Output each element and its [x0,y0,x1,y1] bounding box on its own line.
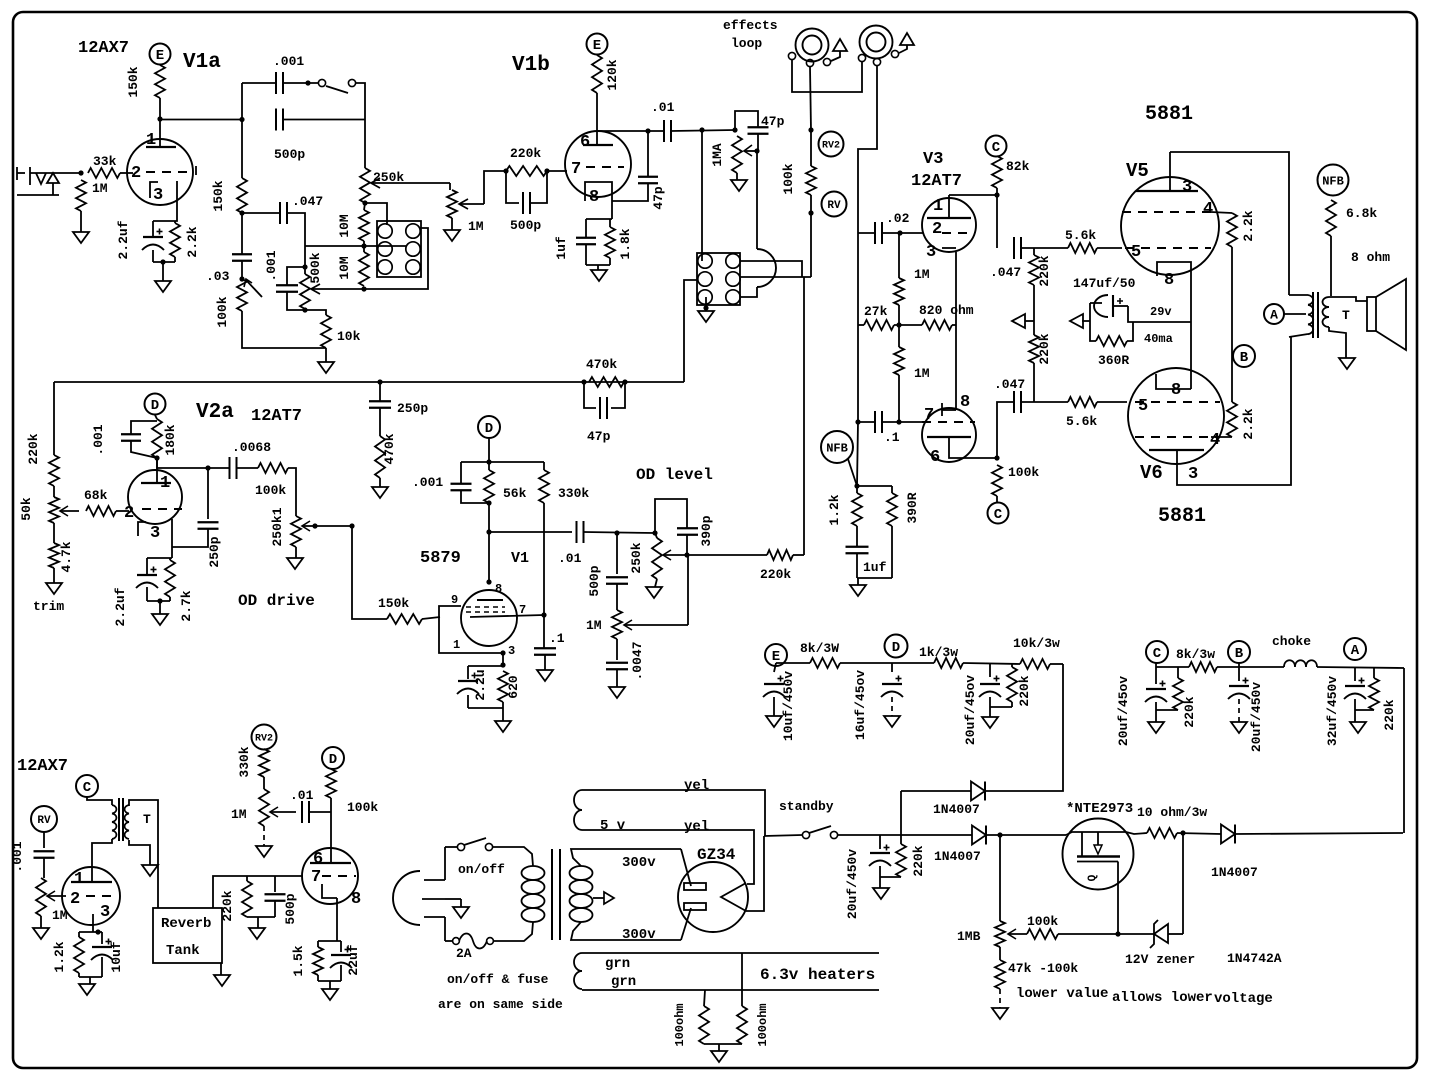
label 1N4007 main [934,849,981,864]
wire zener to gate [1118,933,1154,935]
svg-text:are on same side: are on same side [438,997,563,1012]
svg-text:NFB: NFB [1322,174,1344,188]
wire 1M lower [898,325,900,422]
pin 1 5879 [453,638,460,652]
wire 27k left [858,324,864,326]
resistor 100k reg [1027,929,1058,939]
label 100k reg [1027,914,1058,929]
svg-text:on/off: on/off [458,862,505,877]
capacitor .01 5879 [577,521,584,543]
svg-text:voltage: voltage [1214,991,1273,1007]
plate lead V6 [1177,337,1291,485]
label .01 coupling [651,100,675,115]
svg-text:100k: 100k [1027,914,1058,929]
wire send tip down [810,67,811,130]
cathode net wires V1a [153,221,175,281]
svg-text:100ohm: 100ohm [673,1003,687,1046]
wire 6.8k down [1330,236,1332,296]
label 500k [308,252,323,283]
pin 7 V4b [311,868,321,887]
pot top lead [655,533,657,538]
svg-text:500p: 500p [587,565,602,596]
potentiometer 1M reverb [36,878,46,916]
label 1N4742A [1227,951,1282,966]
node 100k pot top [239,276,244,281]
node 27k junction [896,322,901,327]
ground 250k1 [287,558,303,569]
resistor 82k [992,156,1002,188]
node chain [808,210,813,215]
capacitor 2.2u 5879 [457,673,479,695]
wire .01 out [584,532,655,533]
ground OD level [646,587,662,598]
label 4.7k [59,541,74,572]
Q internals [1066,832,1126,862]
svg-text:8: 8 [351,890,361,909]
tube V1a [127,139,193,205]
capacitor .001 tone [276,285,298,292]
svg-text:360R: 360R [1098,353,1129,368]
label .1 NFB [884,430,900,445]
pin 6 V4b [313,850,323,869]
text grn top [605,956,630,972]
svg-text:100k: 100k [255,483,286,498]
svg-text:.047: .047 [990,265,1021,280]
text are on same side [438,997,563,1012]
svg-text:V2a: V2a [196,401,234,424]
wire socket row3 [740,287,757,297]
svg-text:3: 3 [1182,178,1192,197]
resistor 1M lower V3 [894,347,904,375]
capacitor .001 V2a [121,434,141,441]
label 2.2uf V2a [113,587,128,626]
svg-text:12AT7: 12AT7 [251,407,302,426]
wire rail E [776,662,810,664]
pin 8 V4b [351,890,361,909]
wire 50k to 4.7k [53,523,55,543]
svg-text:150k: 150k [378,596,409,611]
grid dashes V1a [146,171,192,173]
pin3 bracket V2a [138,522,146,536]
label 1M RV2 [231,807,247,822]
node diode out [997,832,1002,837]
label 10uf [109,941,124,972]
node 1MA top [732,127,737,132]
svg-text:20uf/450v: 20uf/450v [1249,682,1264,752]
label 100k tone [215,296,230,327]
node 220k left [503,168,508,173]
svg-text:.02: .02 [886,211,910,226]
wire 360R right [1127,322,1133,341]
svg-text:150k: 150k [211,180,226,211]
node cathode V2a [157,598,162,603]
node 470k ser left [581,379,586,384]
wire grid to 1M [898,233,900,278]
svg-text:1MA: 1MA [710,143,725,167]
label 250p V2a [207,536,222,567]
label 390R [905,492,920,523]
OT core [1313,292,1318,338]
wire 330k down [543,503,545,615]
wire .001 right [283,82,318,84]
pin 8 bracket V5 [1157,262,1191,389]
svg-text:220k: 220k [26,433,41,464]
svg-text:68k: 68k [84,488,108,503]
label 1.8k [618,228,633,259]
jack return lug1 [858,54,865,61]
cathode net 5879 [468,666,503,721]
svg-text:100ohm: 100ohm [756,1003,770,1046]
label 100ohm 1 [673,1003,687,1046]
label 330k [558,486,589,501]
resistor 390R NFB [887,493,897,526]
resistor 220k lower [1029,335,1039,363]
ground .1 5879 [537,670,553,681]
plate bar V4a [71,881,112,883]
wire 220k A bottom [1355,709,1374,711]
resistor 360R [1096,336,1127,346]
node NFB source [1318,165,1349,196]
tube V4b reverb [302,848,358,904]
svg-text:.01: .01 [290,788,314,803]
wire V5 plate to OT [1170,152,1289,295]
svg-text:allows lower: allows lower [1112,990,1213,1006]
capacitor 147uf bias [1094,295,1123,317]
svg-text:100k: 100k [215,296,230,327]
svg-text:220k: 220k [220,890,235,921]
wire .047 lower right [1021,401,1068,403]
arrow bias upper [1012,285,1034,335]
grid dashes V1b [586,166,624,168]
resistor 220k V1b grid [506,166,547,176]
ground RT [142,865,158,876]
node pin8 5879 [486,579,491,584]
wire cathode tie V3 [955,252,957,410]
node B rail [1228,641,1250,663]
node wiper level [684,552,689,557]
node C supply top [986,136,1007,157]
svg-text:.1: .1 [884,430,900,445]
wire 4.7k gnd [53,568,55,583]
wire 150k to 5879 [422,617,440,619]
label .001 5879 [412,475,443,490]
svg-text:22uf: 22uf [346,944,361,975]
pin 6 V1b [580,133,590,152]
wire pot bottom [655,579,657,587]
label 1k/3w [919,645,958,660]
svg-text:220k: 220k [1037,255,1052,286]
text V3 [923,150,943,169]
label 470k bus [382,433,397,464]
svg-text:B: B [1235,646,1244,662]
label 40ma [1144,332,1173,346]
ground cathode V1b [591,270,607,281]
resistor 2.2k V6 [1227,402,1237,437]
tube 5879 [461,590,517,646]
resistor 220k rail A [1369,668,1379,710]
node C rail [1146,641,1168,663]
pin 3 V4a [100,903,110,922]
label .001 reverb [10,841,25,872]
pin 5 V5 [1131,243,1141,262]
label .01 5879 [558,551,582,566]
pin 8 5879 [495,582,502,596]
text trim [33,599,64,614]
wire .0068 right [237,467,258,469]
svg-text:C: C [994,507,1003,523]
svg-text:1M: 1M [468,219,484,234]
wire NFB link [848,459,857,486]
svg-text:Tank: Tank [166,943,200,959]
label .03 [206,269,230,284]
label 220k rail C [1182,696,1197,727]
capacitor .047 tone [280,202,287,224]
text standby [779,799,834,814]
wire 300v bottom [571,922,681,940]
svg-text:220k: 220k [1182,696,1197,727]
label .0068 [232,440,271,455]
capacitor 390p bracket [655,499,687,533]
label 1M reverb [52,908,68,923]
wire grid V3a [900,232,924,234]
svg-text:29v: 29v [1150,305,1172,319]
svg-text:1M: 1M [586,618,602,633]
wiper 1M 5879 [624,555,688,630]
tube V3b [922,408,976,462]
wire NFB mids [857,486,892,546]
text Tank [166,943,200,959]
grid dashes V6 [1135,401,1220,403]
svg-text:5.6k: 5.6k [1066,414,1097,429]
wire 500k to 10k [305,310,326,315]
ground mains [453,907,469,918]
node D supply V2a [145,394,166,415]
svg-text:250p: 250p [207,536,222,567]
pin 2 V1a [131,164,141,183]
arrow bias cap [1070,314,1090,328]
svg-text:6.3v heaters: 6.3v heaters [760,966,875,984]
pin 7 5879 [519,603,526,617]
socket holes loop [698,254,740,304]
svg-text:5.6k: 5.6k [1065,228,1096,243]
node 56k top [486,459,491,464]
resistor 100k loop [806,166,816,195]
svg-text:1MB: 1MB [957,929,981,944]
socket box loop [697,253,740,305]
ground cathode V4a [79,984,95,995]
svg-text:standby: standby [779,799,834,814]
resistor 1k/3w [934,658,963,668]
plate lead V2a [156,458,158,483]
wiper 250k [371,178,450,188]
wire 220k lower [1033,363,1035,402]
wire C to RT [87,797,112,805]
potentiometer 500k tone [300,274,310,309]
label 360R [1098,353,1129,368]
label 33k [93,154,117,169]
node .1 left [855,419,860,424]
pin 1 V1a [146,131,156,150]
node D rail [885,635,908,658]
svg-text:.03: .03 [206,269,230,284]
wire A down [1403,668,1405,833]
text V1b [512,54,550,77]
resistor 330k [539,470,549,503]
ground socket [698,311,714,322]
label 10M upper [337,214,352,238]
svg-text:8: 8 [1164,271,1174,290]
cathode wire V2a [171,519,173,558]
svg-text:470k: 470k [586,357,617,372]
resistor 10k/3w [1020,659,1050,669]
resistor 220k trim [49,455,59,486]
wire plate V3a [949,194,997,196]
wire 100ohm bottom [704,1044,742,1051]
label 1uf NFB [863,560,887,575]
wire 47k gnd [999,989,1001,1008]
svg-text:1.8k: 1.8k [618,228,633,259]
capacitor 47p V1b [612,131,658,201]
capacitor .001 bright [276,72,283,94]
wire screen V6 [1211,436,1232,438]
wire 300v top diag [681,849,691,886]
cathode wire V1a [153,181,177,221]
svg-text:620: 620 [506,675,521,699]
text choke [1272,634,1311,649]
node A rail [1344,638,1366,660]
svg-text:40ma: 40ma [1144,332,1173,346]
resistor 620 [498,671,508,702]
label 2.2k V5 [1241,210,1256,241]
resistor 1.5k V4b [313,947,323,975]
node 250k1 wiper [312,523,317,528]
label 330k RV2 [237,746,252,777]
label 500p bright [274,147,305,162]
resistor 2.2k V5 [1227,213,1237,247]
label 50k [19,497,34,521]
potentiometer 250k OD level [652,538,662,579]
node 82k junction [994,192,999,197]
svg-text:.01: .01 [651,100,675,115]
svg-text:12AX7: 12AX7 [17,757,68,776]
node NFB circle [821,431,853,463]
pin 6 V3b [930,448,940,467]
socket holes V1 [378,224,420,274]
resistor 1.8k cathode [605,227,615,258]
pin 9 5879 [451,593,458,607]
RT core [119,798,123,841]
ground 10uf [766,716,782,727]
svg-text:10M: 10M [337,256,352,280]
node .02 junction [897,230,902,235]
RT secondary top out [129,800,158,908]
svg-text:470k: 470k [382,433,397,464]
svg-text:.001: .001 [91,424,106,455]
wire .047 lower left [997,402,1014,458]
label 220k recovery [220,890,235,921]
label .047 lower [994,377,1025,392]
wire .1 left [858,325,875,422]
svg-text:3: 3 [926,243,936,262]
wire .047 upper right [1021,247,1068,249]
label 620 [506,675,521,699]
label 500p V1b [510,218,541,233]
resistor 220k mix [767,550,793,560]
label 220k standby [911,845,926,876]
wire 1MA wiper down [756,151,758,249]
label 220k V1b [510,146,541,161]
capacitor .001 reverb [34,832,55,878]
pin 3 V2a [150,524,160,543]
wire 20uf C bottom [1156,709,1178,711]
capacitor 1uf cathode V1b [576,238,596,245]
text OD drive [238,592,315,610]
ground 1M mix [444,230,460,241]
node gate node [1115,931,1120,936]
wire 1MB to 47k [999,947,1001,960]
svg-text:150k: 150k [126,66,141,97]
capacitor .047 lower [1014,391,1021,413]
text lower value [1016,986,1108,1002]
resistor 10M lower [359,252,369,286]
label 1N4007 upper [933,802,980,817]
wire to .047 [242,212,279,214]
wiper 50k [60,506,79,516]
svg-text:.001: .001 [412,475,443,490]
6.3v winding [574,953,582,989]
label 220k rail A [1382,699,1397,730]
svg-text:RV2: RV2 [822,141,840,152]
capacitor 20uf standby [869,835,891,877]
text Reverb [161,916,211,932]
capacitor .01 coupling [664,120,671,142]
capacitor 10uf V4a [91,939,113,961]
svg-text:2.2uf: 2.2uf [116,220,131,259]
wire bias to cathodes [1128,306,1191,322]
transistor Q NTE2973 [1063,819,1134,890]
svg-text:yel: yel [684,778,709,794]
node drive node [349,523,354,528]
label 22uf [346,944,361,975]
node 100k junction [994,455,999,460]
resistor 1.2k NFB [852,493,862,526]
jack send lug1 [788,52,795,59]
label 1.2k NFB [827,494,842,525]
capacitor 10uf rail [763,663,785,716]
svg-text:4.7k: 4.7k [59,541,74,572]
grid dashes V5 [1125,247,1211,249]
svg-text:180k: 180k [163,424,178,455]
pin 7 V3b [924,406,934,425]
wire socket row2 [740,276,811,278]
node cathode V4a [95,929,100,934]
svg-text:8 ohm: 8 ohm [1351,250,1390,265]
wire grid V3b [899,421,924,423]
label .001 V2a [91,424,106,455]
node A OT [1264,304,1284,324]
svg-text:1M: 1M [914,366,930,381]
svg-text:220k: 220k [1017,675,1032,706]
svg-text:E: E [593,38,601,54]
pin8 bracket V4b [322,884,337,898]
wire diode to mosfet [986,834,1066,836]
svg-text:.001: .001 [273,54,304,69]
capacitor .001 tone bracket [287,267,305,286]
label 100k V3b [1008,465,1039,480]
label 1N4007 out [1211,865,1258,880]
svg-text:V1: V1 [511,550,529,567]
svg-text:3: 3 [150,524,160,543]
